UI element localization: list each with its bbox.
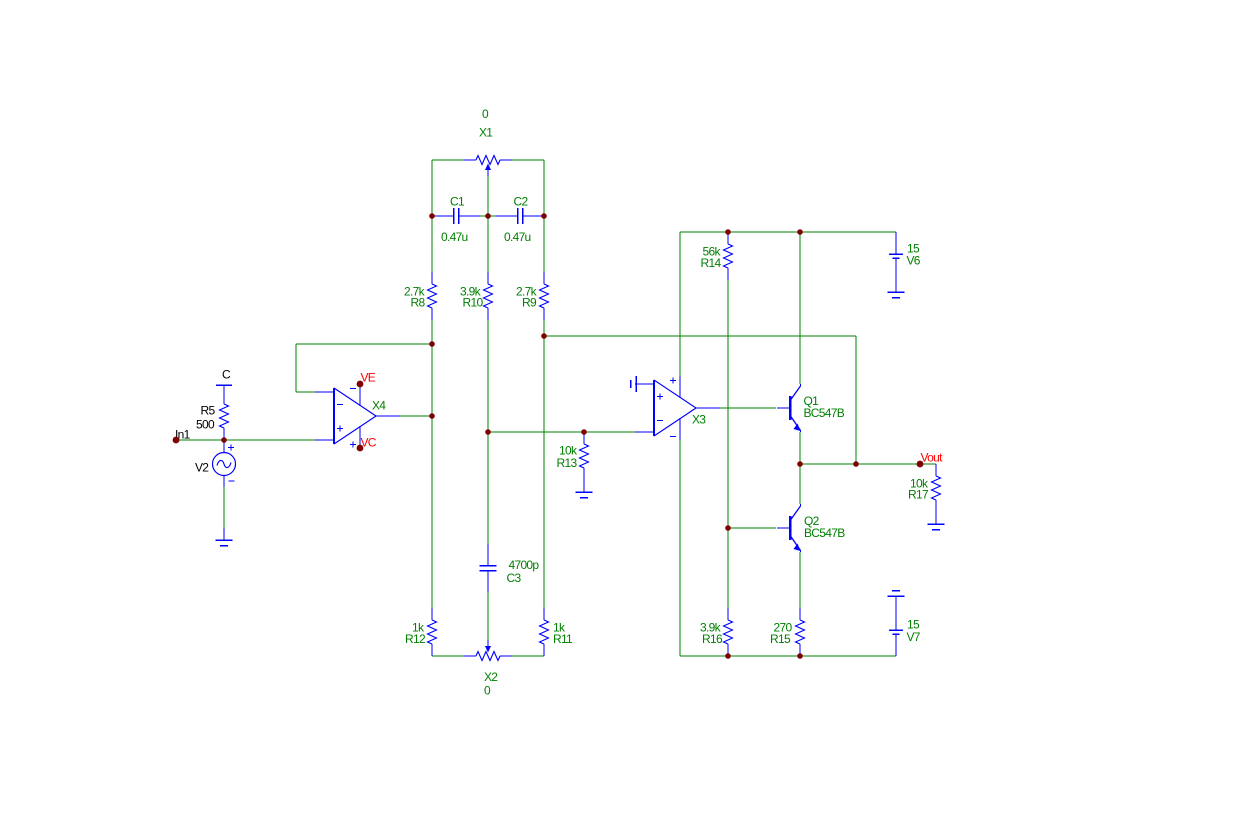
junction dot R15 bottom rail (797, 653, 803, 659)
wire middle rail x=488 (C3 bottom to X2 wiper) (487, 592, 489, 640)
junction dot C2 right (541, 213, 547, 219)
battery V6 (889, 232, 903, 280)
wire top-left of X1 (432, 159, 466, 161)
svg-text:Vout: Vout (921, 451, 944, 465)
resistor R5 (223, 385, 225, 392)
wire x=680 X3 V- pin to bottom rail (679, 440, 681, 656)
ground above V7 (flipped) (888, 591, 905, 609)
wire bottom-left of X2 (432, 655, 466, 657)
junction dot R5/V2/In1 (221, 437, 227, 443)
wire Vout rail y=464 (800, 463, 936, 465)
junction dot Q1 collector at top rail (797, 229, 803, 235)
op-amp X4 power sign minus (top) (350, 388, 356, 390)
junction dot feedback tap at Vout rail (853, 461, 859, 467)
label port I (630, 380, 632, 388)
wire right rail x=544 upper (543, 160, 545, 272)
wire x=728 R14 bottom to R16 top (727, 280, 729, 608)
svg-text:0.47u: 0.47u (504, 230, 531, 244)
port I bar at X3 non-inverting input (635, 376, 637, 392)
svg-text:0.47u: 0.47u (441, 230, 468, 244)
potentiometer X2 wiper arrow (485, 640, 491, 653)
battery V7 (889, 608, 903, 656)
wire y=432 node to X3 inverting input (488, 431, 648, 433)
op-amp X4 (315, 384, 400, 448)
svg-text:X2: X2 (484, 670, 498, 684)
junction dot wiper/C1/C2 node (485, 213, 491, 219)
op-amp X3 (635, 376, 720, 440)
svg-text:R14: R14 (701, 256, 722, 270)
transistor Q2 (777, 504, 801, 552)
svg-text:0: 0 (484, 684, 491, 698)
junction dot X4 output at rail (429, 413, 435, 419)
ground below V6 (888, 280, 905, 298)
potentiometer X1 body (464, 156, 512, 165)
resistor R13 (580, 432, 589, 480)
V2 plus sign (228, 445, 234, 451)
resistor R17 (932, 464, 941, 512)
wire y=336 from R9 junction to x=856 (544, 335, 856, 337)
node In1 dot (173, 437, 180, 444)
junction dot feedback at x=432 (429, 341, 435, 347)
wire bottom-right of X2 (510, 655, 544, 657)
svg-text:BC547B: BC547B (804, 526, 845, 540)
svg-text:R13: R13 (557, 456, 578, 470)
junction dot y=432 at x=488 (485, 429, 491, 435)
wire X3 output to Q1 base (720, 407, 776, 409)
resistor R15 (796, 608, 805, 656)
svg-text:R8: R8 (411, 296, 426, 310)
junction dot R13 top (581, 429, 587, 435)
wire middle rail x=488 (R10 bottom to C3 top) (487, 320, 489, 544)
port C bar above R5 (216, 384, 232, 386)
wire Q2 collector to Vout rail (799, 464, 801, 504)
resistor R14 (724, 232, 733, 280)
node VE dot (357, 381, 364, 388)
wire left rail x=432 upper (431, 160, 433, 272)
potentiometer X2 body (464, 652, 512, 661)
wire Q2 base from divider (728, 527, 776, 529)
wire Q2 emitter to R15 (799, 552, 801, 608)
wire to X4 inverting input (296, 391, 326, 393)
voltage source V2 (213, 440, 236, 487)
svg-text:V7: V7 (907, 630, 921, 644)
svg-text:4700p: 4700p (509, 558, 540, 572)
svg-text:500: 500 (196, 418, 215, 432)
svg-text:VC: VC (361, 436, 377, 450)
svg-text:BC547B: BC547B (804, 406, 845, 420)
resistor R10 (484, 272, 493, 320)
svg-text:C3: C3 (507, 571, 522, 585)
svg-text:R17: R17 (908, 488, 929, 502)
svg-text:R16: R16 (702, 632, 723, 646)
svg-text:VE: VE (361, 371, 376, 385)
wire top-right of X1 (510, 159, 544, 161)
op-amp X4 power sign plus (bottom) (350, 442, 356, 448)
svg-text:R9: R9 (522, 296, 537, 310)
wire V2 minus to ground (223, 487, 225, 528)
junction dot Q1 emitter at Vout rail (797, 461, 803, 467)
wire X1 wiper down to C1/C2 node and R10 (487, 176, 489, 272)
svg-text:C2: C2 (514, 195, 529, 209)
svg-text:C1: C1 (450, 195, 465, 209)
wire Q1 collector to top rail (799, 232, 801, 384)
op-amp X3 power sign plus (top) (670, 378, 676, 384)
svg-text:X3: X3 (692, 413, 706, 427)
wire right rail x=544 (R9 bottom to R11 top) (543, 320, 545, 608)
node Vout dot (917, 461, 924, 468)
svg-text:R12: R12 (405, 632, 426, 646)
junction dot R16 bottom rail (725, 653, 731, 659)
potentiometer X1 wiper arrow (485, 164, 491, 177)
resistor R9 (540, 272, 549, 320)
wire x=680 top rail to X3 V+ pin (679, 232, 681, 376)
capacitor C2 (496, 208, 542, 224)
resistor R12 (428, 608, 437, 656)
svg-text:X1: X1 (479, 126, 493, 140)
svg-text:V2: V2 (195, 461, 209, 475)
transistor Q1 (777, 384, 801, 432)
wire feedback horizontal y=344 (296, 343, 432, 345)
svg-text:R11: R11 (553, 632, 573, 646)
ground below R17 (928, 512, 945, 530)
node VC dot (357, 445, 364, 452)
resistor R8 (428, 272, 437, 320)
op-amp X3 power sign minus (bottom) (670, 436, 676, 438)
wire Q1 emitter to Vout rail (799, 432, 801, 464)
wire top supply rail y=232 (680, 231, 896, 233)
wire X4 output to rail (400, 415, 432, 417)
ground below V2 (216, 528, 233, 546)
wire y=216 C1 row segments (432, 215, 435, 217)
ground below R13 (576, 480, 593, 498)
svg-text:0: 0 (482, 107, 489, 121)
resistor R16 (724, 608, 733, 656)
junction dot Q2 base at divider (725, 525, 731, 531)
svg-text:C: C (222, 368, 231, 382)
svg-text:V6: V6 (907, 254, 921, 268)
wire bottom supply rail y=656 (680, 655, 896, 657)
svg-text:R10: R10 (463, 296, 484, 310)
svg-text:X4: X4 (372, 399, 386, 413)
junction dot R14 top (725, 229, 731, 235)
wire x=856 down to Vout rail (855, 336, 857, 464)
wire feedback vertical x=296 (295, 344, 297, 392)
svg-text:R5: R5 (201, 404, 216, 418)
junction dot R9 to output net (541, 333, 547, 339)
svg-text:R15: R15 (770, 632, 791, 646)
resistor R11 (540, 608, 549, 656)
capacitor C1 (434, 208, 480, 224)
V2 minus sign (229, 480, 235, 482)
wire In1 to X4 non-inverting input (176, 439, 326, 441)
wire left rail x=432 middle (R8 bottom to R12 top) (431, 320, 433, 608)
junction dot C1 left (429, 213, 435, 219)
X3 inverting input blue stub (648, 431, 654, 433)
capacitor C3 (480, 544, 497, 592)
